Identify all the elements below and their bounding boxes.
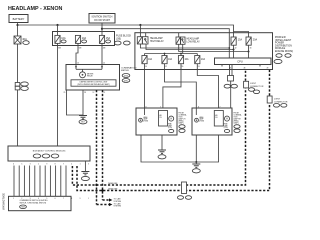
wire fuse rail y53.5 [145,53,198,55]
svg-text:10A: 10A [61,37,66,40]
svg-text:54: 54 [145,66,147,68]
svg-text:15A: 15A [106,37,111,40]
svg-text:52: 52 [165,66,167,68]
svg-text:49: 49 [267,68,269,70]
node rail bus2 [228,47,230,49]
node CAN junction 2 [101,189,103,191]
ground LH lamp [158,150,166,159]
fuse 10A #4 [195,56,206,64]
CAN line V2 from meter [102,90,104,200]
svg-text:M57: M57 [81,122,85,124]
wire bus1 branch to 20A fuse [234,32,249,38]
fuse F2 10A [75,35,86,43]
node fuseA [233,49,235,51]
svg-text:HEADLAMP: HEADLAMP [187,38,200,41]
combination meter box [66,65,120,91]
wire fuse top stubs [145,54,198,56]
fuse 10A #2 [162,56,173,64]
svg-text:(LOW): (LOW) [224,127,229,129]
svg-text:1 2 3 4 5 6 7 8 9 1 1: 1 2 3 4 5 6 7 8 9 1 1 [13,198,101,200]
node rail181 [180,53,182,55]
wires BCM to combination switch [14,166,66,197]
HID control unit RH [214,111,223,127]
svg-text:HEADLAMP - XENON: HEADLAMP - XENON [8,6,63,12]
CAN line V1 from meter [96,90,98,205]
svg-text:BCM (BODY CONTROL MODULE): BCM (BODY CONTROL MODULE) [33,151,66,153]
fusible link 40A [14,36,29,44]
BCM box [8,146,90,161]
CAN H2 data line [77,70,270,191]
svg-text:32: 32 [235,47,237,49]
wire fuseA to CPU [233,50,235,59]
CAN H1 data line [72,70,245,186]
svg-text:(HIGH): (HIGH) [143,121,148,123]
svg-text:48: 48 [244,68,246,70]
wire fuse1 feed [57,25,59,35]
pin stub relay1 right top [145,33,147,37]
wire BCM ground [84,161,86,172]
xenon bulb RH [195,116,205,123]
combination meter label [121,66,137,82]
CPU box [215,58,272,65]
relay headlamp low [176,37,200,44]
svg-text:(J/B): (J/B) [116,38,121,41]
high bulb RH [224,116,230,132]
wire fuse2 to meter [76,43,78,64]
wire relay1 rail to bus2 drop [140,44,229,48]
svg-text:COMBINATION: COMBINATION [121,66,137,69]
node battery bus junction [16,24,18,26]
ground meter [79,116,87,124]
wire relay1 coil feed from bus [139,25,141,37]
svg-text:10A: 10A [82,37,87,40]
svg-text:RELAY: RELAY [87,75,94,78]
wire fuseB output rail to relay2 [179,44,249,51]
wire RH pin1 inner [195,108,197,115]
wire CPU output cont [230,81,232,108]
node rail164 [164,53,166,55]
CPU bottom pin ticks [222,65,260,67]
svg-text:C/U: C/U [159,117,162,119]
wire bus2 ignition feed [102,29,229,58]
svg-text:METER: METER [121,70,129,72]
svg-text:12: 12 [93,92,95,94]
node ignition bus junction [101,28,103,30]
connector E152/M77 on battery line [15,82,28,91]
svg-text:10A: 10A [148,58,153,61]
fuse F1 10A [55,35,66,43]
svg-text:CPU: CPU [237,59,243,63]
node fuse block feed [56,24,58,26]
svg-text:(LOW): (LOW) [168,127,173,129]
ignition switch box [89,14,115,24]
fuse A 15A [231,37,242,45]
svg-text:HEADLAMP: HEADLAMP [150,37,163,40]
meter inner feed arrows [76,65,102,70]
svg-text:M34: M34 [124,75,128,77]
node ground bus [195,161,197,163]
svg-text:JOINT: JOINT [250,83,257,85]
wire meter ground left [67,90,84,115]
svg-text:6 5 3 2 9 8 7 4 1 3 2: 6 5 3 2 9 8 7 4 1 3 2 [13,164,101,166]
node CAN junction 1 [95,184,97,186]
wire LH pin1 inner [144,108,146,115]
wire fuse3 to meter [101,43,103,64]
svg-text:LOW RELAY: LOW RELAY [187,40,201,43]
label front combination lamp LH [179,112,187,132]
fuse block J/B box [53,32,115,46]
svg-text:DATA LINE: DATA LINE [108,188,118,191]
svg-text:53: 53 [198,66,200,68]
svg-text:55: 55 [182,66,184,68]
combination switch box [9,196,72,210]
ground BCM [81,172,89,181]
wire ignition drop [101,23,103,35]
svg-text:ON OR START: ON OR START [94,19,111,22]
pin stub relay2 top [178,33,180,37]
svg-text:WKWA2760E: WKWA2760E [2,193,6,210]
wire RH lamp left pin [195,135,197,162]
node IPDM relay feed [139,24,141,26]
svg-text:M35: M35 [124,80,128,82]
svg-text:JOINT: JOINT [274,99,281,101]
label front combination lamp RH [234,112,242,132]
wire fuse3 to left headlamp pin2 [163,64,181,108]
svg-text:28: 28 [84,92,86,94]
battery box [9,15,28,23]
joint connector 1 [244,81,264,93]
wire fuseA output rail to relay1 [146,44,234,50]
joint connector 2 [267,96,288,107]
svg-text:ENGINE ROOM): ENGINE ROOM) [275,50,293,53]
svg-text:30: 30 [250,47,252,49]
headlamp RH box [192,108,232,135]
connector on CPU output [228,76,234,82]
wire ground2 stub [195,162,197,164]
IPDM label right [274,36,293,64]
wire bus1 battery feed [18,25,234,37]
svg-text:FRONT: FRONT [179,112,185,114]
node fuseB [248,51,250,53]
wire fuseB to CPU [248,52,250,59]
svg-text:22: 22 [77,63,79,65]
meter lamp symbol [80,69,94,78]
svg-text:M28: M28 [21,207,24,209]
wire LH lamp ground drop [161,135,163,150]
svg-text:(HIGH): (HIGH) [199,121,204,123]
svg-text:21: 21 [103,63,105,65]
wire battery drop [17,23,19,37]
svg-text:11: 11 [104,92,106,94]
CAN arrow to system lower [97,202,122,207]
relay headlamp high [137,37,164,44]
wire fuse2 to right headlamp pin1 [165,64,197,108]
svg-text:10A: 10A [185,58,190,61]
svg-text:(WITH UNIFIED METER AND A/C AM: (WITH UNIFIED METER AND A/C AMP) [77,83,110,86]
high bulb LH [168,116,174,132]
wire fuse1 to BCM [57,43,59,146]
wire meter ground right [82,90,84,116]
wire relay2 out to fuse rail [182,44,184,53]
wire lamp ground bus [141,135,219,162]
svg-text:10A: 10A [201,58,206,61]
fuse block label [115,35,132,45]
svg-text:BATTERY: BATTERY [13,17,25,21]
HID control unit LH [159,111,168,127]
harness connector on data lines [177,182,191,199]
wire fuse1 to left headlamp [144,64,146,108]
svg-text:H: H [170,118,172,121]
svg-text:HIGH RELAY: HIGH RELAY [150,40,164,43]
ground RH lamps [192,164,200,173]
wire fuse4 to right headlamp pin2 [197,64,218,108]
wire CPU solid outputs [230,65,233,76]
svg-text:29: 29 [64,92,66,94]
headlamp LH box [136,108,177,135]
fuse 10A #1 [142,56,153,64]
svg-text:SWITCH, TURN SIGNAL SWITCH): SWITCH, TURN SIGNAL SWITCH) [20,202,47,205]
unified meter control unit sub-box [71,80,116,86]
svg-text:FRONT: FRONT [234,112,240,114]
meter inner rail [76,68,102,70]
xenon bulb LH [139,116,149,123]
svg-text:DATA LINE: DATA LINE [108,182,118,185]
svg-text:C/U: C/U [215,117,218,119]
wire battery line down left side [17,44,19,146]
IPDM E/R box [135,33,273,70]
fuse F3 15A [99,35,110,43]
fuse B 20A [246,37,257,45]
CAN arrow to system upper [103,198,122,203]
svg-text:15A: 15A [238,39,243,42]
svg-text:SYSTEM: SYSTEM [114,206,122,208]
fuse 10A #3 [178,56,189,64]
svg-text:H: H [226,118,228,121]
svg-text:20A: 20A [253,39,258,42]
svg-text:10A: 10A [168,58,173,61]
